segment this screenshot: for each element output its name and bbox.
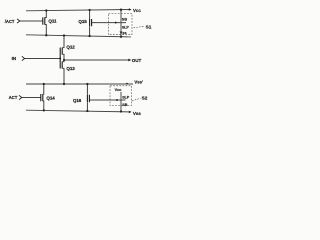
junction dot S2 gate wire xyxy=(116,99,118,101)
junction dot S1 gate wire xyxy=(115,22,117,24)
switch box S2 xyxy=(110,86,132,106)
wire S1 internal vertical xyxy=(120,10,122,37)
wire S2 internal vertical xyxy=(120,92,122,112)
svg-text:Vcc: Vcc xyxy=(133,8,141,13)
svg-text:Q13: Q13 xyxy=(66,66,75,71)
wire /ACT input xyxy=(20,20,43,22)
svg-text:S2: S2 xyxy=(142,95,148,100)
svg-text:OUT: OUT xyxy=(132,58,142,63)
leader to S1 xyxy=(134,26,144,28)
terminal chevron IN xyxy=(22,56,25,60)
svg-text:S1: S1 xyxy=(146,25,152,30)
svg-text:Vss: Vss xyxy=(120,31,127,35)
svg-text:/ACT: /ACT xyxy=(5,19,15,24)
transistor Q13 xyxy=(62,60,64,84)
svg-text:Vss': Vss' xyxy=(134,80,143,85)
svg-text:Q16: Q16 xyxy=(73,98,82,103)
svg-text:Q11: Q11 xyxy=(48,18,57,23)
wire ACT input xyxy=(22,97,41,99)
svg-text:Q12: Q12 xyxy=(66,44,75,49)
svg-text:IN: IN xyxy=(12,56,17,61)
junction dots top rail xyxy=(45,9,122,12)
wire IN input xyxy=(25,58,61,60)
wire Vcc rail xyxy=(26,10,130,11)
wire OUT xyxy=(64,59,129,61)
wire Vss rail xyxy=(26,110,130,112)
wire virtual-Vcc rail xyxy=(26,35,131,37)
arrowhead Vcc rail xyxy=(129,8,132,11)
junction dots Vss rail xyxy=(43,109,123,112)
svg-text:Vss: Vss xyxy=(133,111,141,116)
svg-text:SLP: SLP xyxy=(122,96,130,100)
junction dots virtual-Vcc rail xyxy=(45,34,122,38)
svg-text:SB: SB xyxy=(122,17,128,21)
transistor Q16 xyxy=(87,84,89,111)
svg-text:ACT: ACT xyxy=(9,95,18,100)
transistor Q11 xyxy=(43,11,47,36)
junction dot OUT node xyxy=(63,59,65,61)
wire Q15 gate to S1 xyxy=(92,22,126,24)
arrowhead Vss rail xyxy=(129,111,132,114)
transistor Q15 xyxy=(90,10,92,36)
transistor Q12 xyxy=(62,36,64,61)
background xyxy=(0,0,153,120)
svg-text:SLP: SLP xyxy=(122,25,130,29)
terminal chevron ACT xyxy=(19,95,22,99)
wire inverter gate link xyxy=(59,48,61,69)
switch box S1 xyxy=(109,14,133,35)
junction dots virtual-GND rail xyxy=(43,83,128,85)
wire Q16 gate to S2 xyxy=(89,99,125,101)
junction dot inverter gate node xyxy=(59,58,61,60)
transistor Q14 xyxy=(41,84,44,110)
arrowhead OUT xyxy=(128,59,131,62)
svg-text:Vcc: Vcc xyxy=(115,88,122,92)
svg-text:Q14: Q14 xyxy=(46,95,55,100)
wire virtual-GND rail xyxy=(26,83,133,85)
svg-text:SB: SB xyxy=(122,103,128,107)
leader to S2 xyxy=(132,98,141,101)
svg-text:Q15: Q15 xyxy=(78,19,87,24)
terminal chevron /ACT xyxy=(17,19,20,23)
